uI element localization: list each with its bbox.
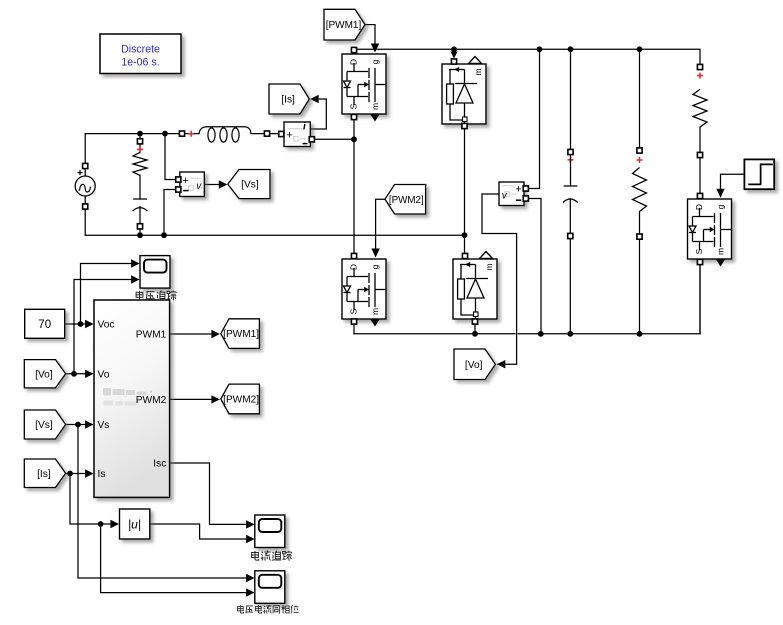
goto tag PWM1 <box>221 319 260 349</box>
svg-text:+: + <box>286 129 292 141</box>
wire Is node to Abs block input <box>70 474 111 525</box>
wire controller PWM1 to Goto PWM1 <box>170 333 212 335</box>
wire top rail of source loop <box>85 133 182 135</box>
MOSFET Q2 (bottom switch) <box>342 259 386 319</box>
wire Diode2 cathode to bottom rail <box>474 322 476 334</box>
wire RC branch to bottom rail <box>139 211 141 235</box>
wire output voltage measurement - to bottom rail <box>527 199 541 334</box>
wire controller PWM2 to Goto PWM2 <box>170 398 212 400</box>
wire top rail to series RC branch <box>139 134 141 153</box>
wire MOSFET2 source to bottom DC rail <box>353 322 355 334</box>
capacitor lead <box>139 206 141 211</box>
controller subsystem block <box>94 300 170 497</box>
wire From PWM2 to MOSFET2 gate <box>376 199 386 250</box>
label Scope3 v-i-in-phase (CJK) <box>237 605 298 614</box>
svg-text:[Vs]: [Vs] <box>35 420 53 431</box>
svg-text:PWM1: PWM1 <box>136 330 167 341</box>
wire node to Scope1 input 1 <box>81 264 132 325</box>
from tag Vo <box>24 360 65 388</box>
wire top rail to output voltage measurement + <box>527 49 540 188</box>
svg-text:Vo: Vo <box>98 369 110 380</box>
from tag Vs <box>24 410 65 439</box>
output capacitor C <box>568 149 573 154</box>
wire From Is to controller Is <box>66 473 86 475</box>
wire top rail to voltage measurement + input <box>165 134 177 180</box>
abs block |u| <box>120 509 150 539</box>
svg-text:[PWM2]: [PWM2] <box>389 195 424 206</box>
wire AC source top lead to top rail <box>84 134 86 176</box>
resistor zigzag in RC branch <box>133 152 147 175</box>
wire load resistor to bottom rail <box>639 237 641 334</box>
step source block <box>744 159 774 189</box>
wire MOSFET1 drain lead <box>353 52 355 54</box>
node Vo branch <box>71 371 77 377</box>
MOSFET Q1 (top switch) <box>342 54 386 114</box>
svg-text:+: + <box>515 184 521 196</box>
svg-text:PWM2: PWM2 <box>136 395 167 406</box>
wire Step block to MOSFET3 gate <box>721 174 745 190</box>
scope block Scope3 (v-i phase) <box>255 571 285 604</box>
wire Abs output to Scope2 input 2 <box>150 524 247 539</box>
wire inductor to current measurement <box>251 133 281 135</box>
goto tag PWM2 <box>221 384 260 414</box>
node constant 70 branch <box>78 321 84 327</box>
node bottom DC rail / capacitor junction <box>567 331 573 337</box>
Diode D2 (bottom) <box>453 259 497 319</box>
node bottom DC rail / diode2 junction <box>472 331 478 337</box>
goto tag Vs <box>228 170 270 199</box>
svg-text:Isc: Isc <box>153 459 166 470</box>
MOSFET Q3 (output load switch) <box>688 199 732 259</box>
wire From Vo to controller Vo <box>66 373 86 375</box>
goto-from tag From PWM1 (top) <box>324 9 365 40</box>
svg-text:Is: Is <box>98 469 106 480</box>
node top rail / v-meas junction <box>162 131 168 137</box>
powergui block Discrete 1e-06 s <box>100 34 181 74</box>
wire top rail to load resistor <box>639 49 641 150</box>
capacitor plates in RC branch <box>133 199 148 211</box>
scope block Scope1 (voltage tracking) <box>140 256 170 289</box>
node Vs branch <box>75 422 81 428</box>
constant block 70 <box>25 309 65 338</box>
node top DC rail / diode1 junction <box>451 46 457 52</box>
wire current measurement i output to Goto Is <box>310 99 326 129</box>
node top DC rail / capacitor junction <box>568 46 574 52</box>
capacitor top lead <box>570 155 572 186</box>
wire output capacitor to bottom rail <box>569 236 571 334</box>
node bottom rail / v-meas minus junction <box>161 232 167 238</box>
load resistor zigzag <box>633 168 647 237</box>
svg-text:Vs: Vs <box>98 420 110 431</box>
svg-text:Discrete: Discrete <box>121 44 160 56</box>
svg-text:[Vo]: [Vo] <box>35 369 53 380</box>
wire node to Scope1 input 2 <box>74 280 132 374</box>
arrowheads on signal lines <box>371 44 379 53</box>
svg-text:i: i <box>303 121 306 132</box>
svg-text:[PWM2]: [PWM2] <box>223 395 259 406</box>
watermark smudge inside controller <box>103 388 147 396</box>
svg-text:+: + <box>182 175 188 187</box>
output voltage measurement block v (Vo sensor, mirrored) <box>499 182 524 206</box>
AC voltage source Vac <box>75 176 95 196</box>
svg-text:[Vo]: [Vo] <box>465 360 483 371</box>
wire From PWM1 to MOSFET1 gate <box>365 25 375 45</box>
wire bottom rail of source loop <box>85 234 464 236</box>
svg-text:[Is]: [Is] <box>37 469 51 480</box>
current measurement block i (Is sensor) <box>284 122 310 147</box>
svg-text:[PWM1]: [PWM1] <box>326 20 362 31</box>
svg-text:[PWM1]: [PWM1] <box>223 329 259 340</box>
wire output voltage measurement v to Goto Vo <box>482 194 517 364</box>
svg-text:70: 70 <box>38 319 51 331</box>
svg-text:1e-06 s.: 1e-06 s. <box>121 57 159 69</box>
wire top DC rail <box>354 49 700 67</box>
from tag Is <box>24 459 65 488</box>
label Scope2 current-tracking (CJK) <box>252 551 292 561</box>
wire Constant 70 to controller Voc <box>65 323 86 325</box>
node bottom DC rail / v-meas2 minus junction <box>538 331 544 337</box>
Diode D1 (top) <box>442 64 486 124</box>
wire inductor left lead <box>182 133 199 135</box>
node current meas output / MOSFET1 source junction <box>351 136 357 142</box>
wire resistor to capacitor in RC branch <box>139 175 141 199</box>
svg-text:|u|: |u| <box>128 518 141 532</box>
series resistor R2 (right branch) <box>697 64 702 69</box>
wire top rail to Diode1 anode <box>453 49 455 53</box>
node bottom rail / RC branch junction <box>137 232 143 238</box>
goto tag Vo (mirrored) <box>454 349 495 380</box>
wire From Vs to controller Vs <box>66 424 86 426</box>
scope block Scope2 (current tracking) <box>255 515 285 548</box>
wire controller Isc to Scope2 input 1 <box>170 463 247 524</box>
series resistor zigzag <box>693 89 707 155</box>
node Is branch <box>67 471 73 477</box>
wire series resistor to MOSFET3 drain <box>699 155 701 196</box>
wire bottom DC rail <box>354 262 700 334</box>
node top rail / RC branch junction <box>137 131 143 137</box>
wire Diode1 cathode to Diode2 anode <box>464 127 466 256</box>
load resistor R load <box>637 148 642 153</box>
goto tag Is (mirrored) <box>269 84 309 114</box>
wire Vs node to Scope3 input 1 <box>78 425 247 579</box>
svg-text:[Is]: [Is] <box>281 95 295 106</box>
resistor-capacitor series branch (source filter) <box>137 139 142 144</box>
voltage measurement block v (Vs sensor) <box>180 172 205 197</box>
from tag PWM2 (mirrored) <box>385 185 426 215</box>
node Abs input branch <box>98 521 104 527</box>
wire top rail to output capacitor <box>570 49 572 152</box>
wire voltage measurement - input to bottom rail <box>164 190 177 236</box>
output capacitor plates <box>563 186 578 203</box>
wire current measurement - to MOSFET1 source node <box>312 138 354 140</box>
node top DC rail / v-meas2 junction <box>537 46 543 52</box>
svg-text:Voc: Voc <box>98 320 115 331</box>
inductor L1 <box>179 131 184 136</box>
node top DC rail / load resistor junction <box>637 46 643 52</box>
svg-text:[Vs]: [Vs] <box>241 180 259 191</box>
wire voltage measurement v output to Goto Vs <box>204 184 220 186</box>
node diode wire / source bottom rail junction <box>462 232 468 238</box>
node bottom DC rail / load resistor junction <box>637 331 643 337</box>
label Scope1 voltage-tracking (CJK) <box>136 291 176 301</box>
capacitor bottom lead <box>569 199 571 236</box>
wire MOSFET1 source to MOSFET2 drain <box>353 114 355 256</box>
wire AC source bottom lead <box>84 196 86 235</box>
wire MOSFET3 source to bottom rail <box>699 262 701 334</box>
wire Abs input node to Scope3 input 2 <box>101 524 247 593</box>
